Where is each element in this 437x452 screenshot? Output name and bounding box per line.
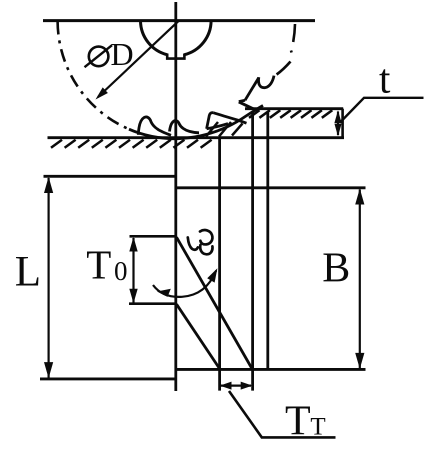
svg-text:t: t xyxy=(379,56,391,102)
blade arc right dash 2 xyxy=(293,24,295,42)
workpiece band right end cap xyxy=(341,109,344,138)
svg-text:L: L xyxy=(15,249,41,296)
saw tooth 4 tip flat xyxy=(239,100,245,101)
saw tooth 3 base xyxy=(207,124,228,129)
left box bottom line xyxy=(40,377,176,380)
right box bottom line xyxy=(176,368,366,371)
t leader line xyxy=(340,98,424,123)
svg-text:T: T xyxy=(86,242,111,288)
phi symbol circle xyxy=(89,47,109,67)
rotation arrow curve xyxy=(153,271,216,297)
T0 bracket bottom line xyxy=(129,302,176,305)
rotation arrow head left xyxy=(157,289,171,297)
blade tip circle arc bottom (solid through teeth) xyxy=(129,106,263,139)
saw tooth 4 gullet hook xyxy=(259,76,274,88)
left surface line with band bottom xyxy=(48,136,345,139)
blade arc right dash 1 xyxy=(277,62,291,75)
saw tooth 4 upper face xyxy=(245,78,259,101)
blade arc right dot xyxy=(290,51,293,53)
diameter arrowhead xyxy=(96,87,108,99)
diameter radius line xyxy=(98,21,179,97)
TT dimension line xyxy=(221,385,251,387)
saw tooth 4 lower edge xyxy=(239,102,257,111)
saw tooth 3 hypotenuse xyxy=(213,113,246,124)
band hatching xyxy=(249,110,332,118)
blade centerline xyxy=(174,2,177,391)
right box top line xyxy=(176,186,366,189)
T0 bracket top line xyxy=(130,235,176,238)
saw tooth 2 xyxy=(170,121,200,133)
svg-text:T: T xyxy=(285,398,311,444)
top reference line xyxy=(43,19,315,22)
svg-text:0: 0 xyxy=(114,256,128,286)
hub keyway notch xyxy=(167,54,184,59)
left surface hatching xyxy=(51,140,212,148)
label omega (rotated, hand-drawn) xyxy=(188,230,213,254)
L dimension line xyxy=(47,178,49,378)
feed diagonal B xyxy=(177,304,220,369)
feed diagonal A xyxy=(177,237,253,369)
saw tooth 1 xyxy=(138,117,171,135)
kerf wall line left xyxy=(218,138,221,391)
phi symbol slash xyxy=(85,45,113,67)
kerf area hatching xyxy=(206,122,243,137)
kerf line mid xyxy=(251,111,254,391)
B dimension line xyxy=(359,190,361,369)
svg-text:D: D xyxy=(111,36,134,72)
svg-text:T: T xyxy=(310,413,325,440)
TT leader line xyxy=(229,391,336,437)
hub semicircle xyxy=(141,21,168,55)
svg-text:B: B xyxy=(322,245,350,291)
workpiece top surface right xyxy=(245,107,343,110)
T0 dimension line xyxy=(132,238,134,303)
kerf line right xyxy=(266,112,269,369)
saw tooth 3 left edge and apex xyxy=(207,113,214,129)
blade tip circle arc left (dash-dot) xyxy=(58,22,129,130)
left box top line xyxy=(44,175,176,178)
rotation arrow head right xyxy=(207,268,217,282)
t dimension line xyxy=(337,112,339,136)
